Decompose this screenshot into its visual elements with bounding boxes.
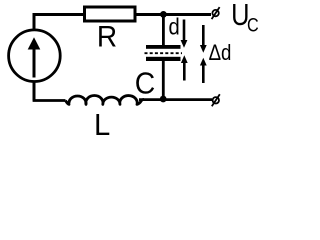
svg-text:C: C	[135, 66, 155, 100]
svg-text:d: d	[169, 13, 180, 40]
svg-text:L: L	[94, 108, 110, 142]
svg-text:C: C	[247, 14, 259, 36]
svg-text:R: R	[97, 21, 117, 54]
svg-text:Δd: Δd	[209, 40, 232, 65]
